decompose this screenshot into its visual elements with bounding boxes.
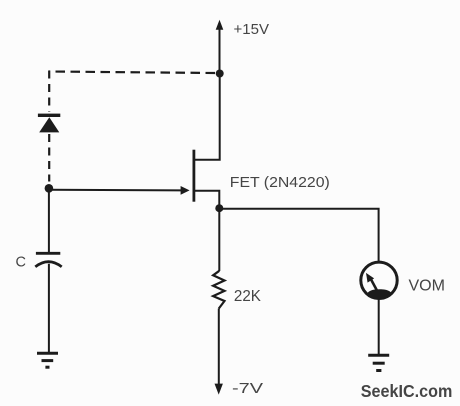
ground (right, below VOM) [368,355,389,370]
svg-text:22K: 22K [234,288,262,305]
meter VOM [361,262,397,298]
resistor R1 22K [213,271,224,309]
node A (top junction) [216,70,224,78]
wire (node C down to resistor) [218,209,220,271]
wire (dashed vertical above diode) [48,71,50,112]
ground (left, below capacitor) [37,353,58,367]
svg-text:-7V: -7V [232,380,263,397]
svg-text:C: C [16,254,26,270]
svg-text:VOM: VOM [409,278,446,295]
wire (resistor to -7V arrow) [218,309,220,385]
svg-text:+15V: +15V [234,22,270,38]
wire (drain lead up to node A) [194,74,220,160]
FET Q1 channel bar [192,150,195,202]
wire (VOM to ground) [378,299,380,355]
node B (gate/cap junction) [45,184,54,193]
diode D1 [38,114,60,133]
gate arrowhead of FET Q1 [181,186,190,195]
wire (dashed horizontal from node A to diode branch) [49,72,215,74]
wire (source lead down to node C) [194,191,219,208]
capacitor C [35,253,61,266]
wire (node B down to capacitor C) [48,190,50,252]
wire (capacitor to ground) [48,264,50,353]
svg-text:SeekIC.com: SeekIC.com [361,381,453,401]
+15V supply arrow [216,20,224,74]
node C (source/output junction) [215,204,223,212]
-7V arrow (down) [215,384,223,395]
wire (dashed vertical below diode) [48,134,50,182]
wire (output to VOM) [219,209,378,262]
svg-text:FET (2N4220): FET (2N4220) [230,174,330,191]
wire (gate lead) [49,189,182,192]
